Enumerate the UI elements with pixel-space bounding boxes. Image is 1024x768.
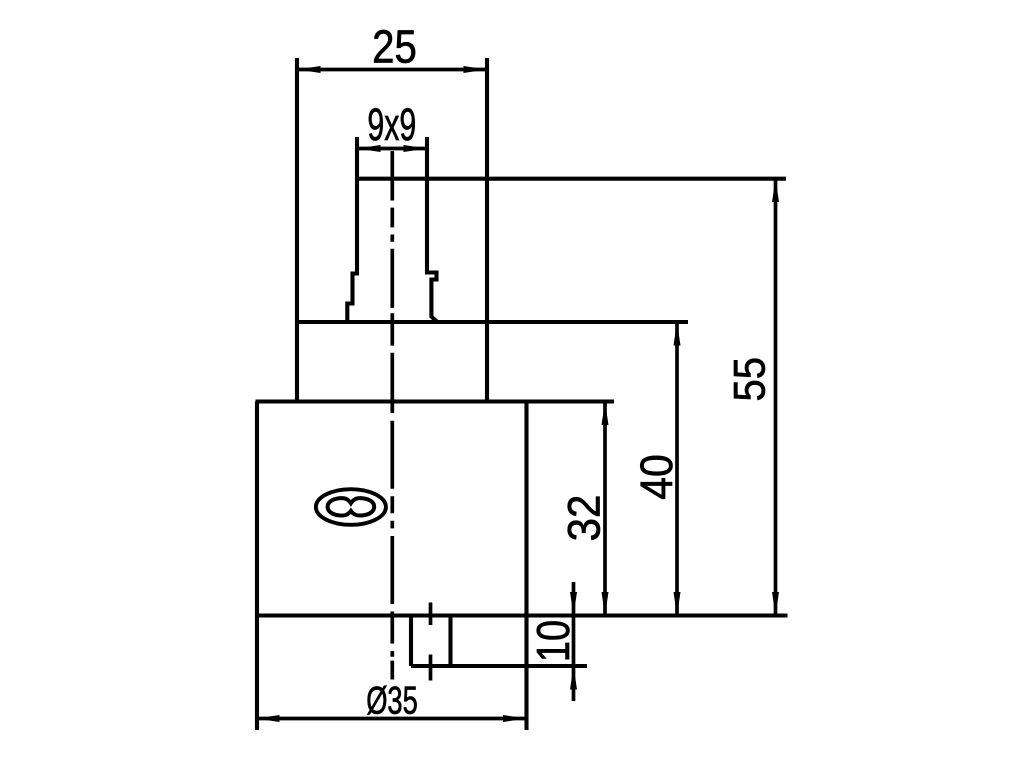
main centerline (dash-dot) [390,151,394,680]
svg-text:9x9: 9x9 [367,100,416,151]
body left edge / diameter extension line [255,402,259,731]
port centerline dash lower [429,655,433,681]
dimension line diameter 35 [256,717,527,721]
arrowhead 55 top [772,179,779,202]
middle block left edge / 25 extension line [295,58,299,402]
arrowhead 10 lower (points up) [570,666,577,690]
svg-text:40: 40 [632,454,682,500]
arrowhead d35 left [256,715,280,722]
bottom port right edge [448,616,452,667]
middle block top edge / 40 extension line [296,320,688,324]
dimension line 9x9 [357,147,427,151]
arrowhead 55 bottom [772,592,779,616]
dimension line 25 [297,68,487,72]
dimension line 40 [675,322,679,616]
arrowhead 25 right [464,66,488,73]
bottom port bottom edge / 10 extension line [411,664,587,668]
stem top edge / 55 extension line [356,177,786,181]
arrowhead 32 top [602,402,609,426]
bottom port left edge [409,616,413,667]
stem left edge with steps [347,137,357,322]
arrowhead 10 upper (points down) [570,592,577,616]
svg-text:25: 25 [372,22,417,73]
dimension line 55 [774,179,778,616]
dimension line 10 [572,582,576,701]
dimension line 32 [603,402,607,616]
stem right edge with groove bump [427,137,437,322]
arrowhead 40 bottom [674,592,681,616]
svg-text:55: 55 [725,357,774,401]
arrowhead 32 bottom [602,592,609,616]
port centerline dash upper [429,603,433,626]
svg-text:10: 10 [528,620,579,662]
logo outer ellipse [316,489,386,525]
logo inner infinity shape [328,498,375,515]
body top edge / 32 extension line [256,399,615,403]
arrowhead 9x9 left [357,145,381,152]
body right edge / diameter extension line [524,402,528,731]
arrowhead 25 left [297,66,321,73]
arrowhead 40 top [674,322,681,346]
arrowhead 9x9 right [404,145,428,152]
body bottom edge / extension line for vertical dims [256,613,788,617]
svg-text:32: 32 [559,495,610,542]
svg-text:Ø35: Ø35 [366,680,418,723]
arrowhead d35 right [503,715,527,722]
middle block right edge / 25 extension line [485,58,489,402]
